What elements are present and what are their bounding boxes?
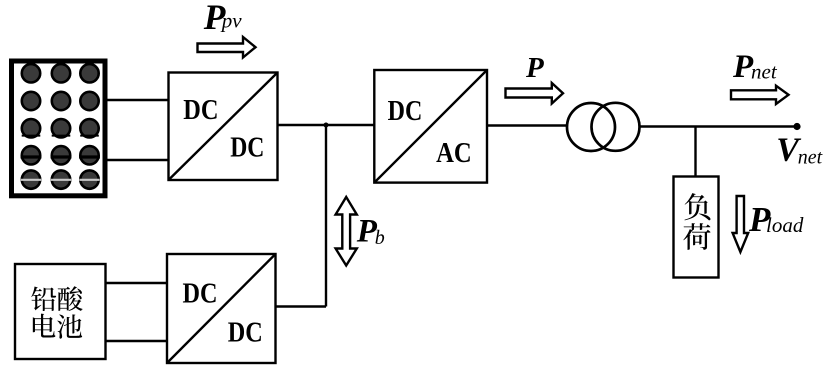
wire U2 output to branch: [276, 305, 327, 307]
wire U3 to transformer: [487, 124, 568, 126]
label P_net: [732, 49, 778, 85]
battery block (qian suan dian chi): [15, 264, 106, 359]
label P_load: [748, 200, 804, 239]
transformer T1: [567, 103, 640, 151]
converter U1 DC/DC (PV side): [169, 73, 278, 181]
load block (fu he): [674, 177, 719, 278]
converter U2 DC/DC (battery side): [167, 254, 276, 363]
svg-text:net: net: [798, 146, 823, 168]
wire battery to U2 bottom: [106, 340, 168, 342]
label P_pv: [203, 0, 243, 37]
wire battery to U2 top: [106, 282, 168, 284]
svg-text:b: b: [375, 227, 385, 249]
arrow P: [506, 83, 564, 104]
arrow P_load (down): [733, 196, 749, 252]
converter U3 DC/AC inverter: [374, 70, 487, 183]
wire PV to converter U1 bottom: [106, 159, 169, 161]
svg-text:AC: AC: [436, 137, 472, 169]
PV array panel: [12, 61, 106, 196]
node DC bus junction: [324, 123, 329, 128]
svg-text:DC: DC: [388, 95, 423, 127]
arrow P_b (bidirectional): [336, 197, 357, 266]
svg-text:net: net: [751, 60, 778, 84]
svg-text:DC: DC: [183, 94, 218, 126]
svg-text:load: load: [766, 213, 804, 237]
svg-text:DC: DC: [228, 317, 263, 349]
node V_net terminal: [793, 123, 800, 130]
svg-text:DC: DC: [183, 277, 218, 309]
arrow P_net: [731, 86, 789, 104]
svg-text:DC: DC: [230, 131, 264, 163]
wire load branch: [694, 127, 696, 178]
wire PV to converter U1 top: [106, 99, 169, 101]
wire battery branch vertical: [325, 125, 327, 307]
label P_b: [356, 214, 385, 250]
wire transformer to grid: [640, 125, 798, 127]
wire U1 output to DC bus: [278, 124, 375, 126]
svg-text:pv: pv: [220, 9, 243, 33]
arrow P_pv: [198, 37, 256, 58]
label V_net: [776, 132, 822, 169]
svg-text:P: P: [525, 52, 544, 84]
